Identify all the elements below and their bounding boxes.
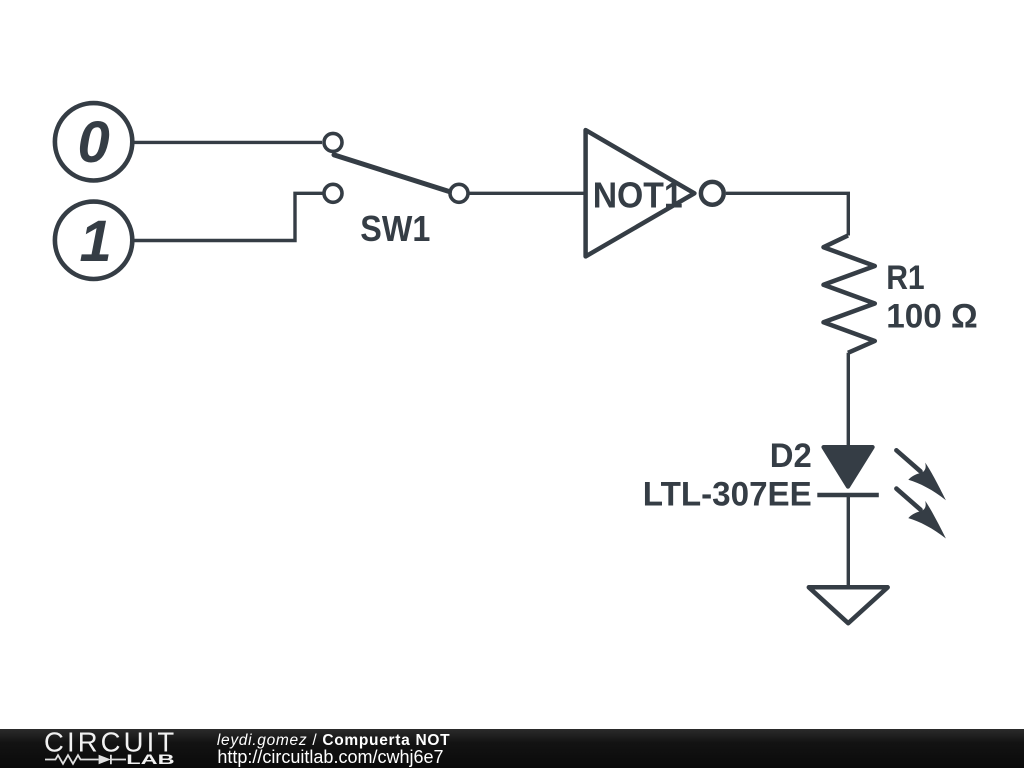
svg-text:1: 1	[79, 209, 111, 274]
svg-text:NOT1: NOT1	[593, 175, 683, 216]
svg-text:0: 0	[77, 110, 109, 175]
svg-text:http://circuitlab.com/cwhj6e7: http://circuitlab.com/cwhj6e7	[217, 747, 443, 767]
svg-text:R1: R1	[886, 259, 925, 297]
svg-text:LTL-307EE: LTL-307EE	[643, 476, 812, 514]
svg-text:LAB: LAB	[126, 751, 174, 767]
svg-text:D2: D2	[770, 437, 812, 475]
svg-text:100 Ω: 100 Ω	[886, 297, 978, 335]
svg-text:SW1: SW1	[360, 208, 430, 249]
